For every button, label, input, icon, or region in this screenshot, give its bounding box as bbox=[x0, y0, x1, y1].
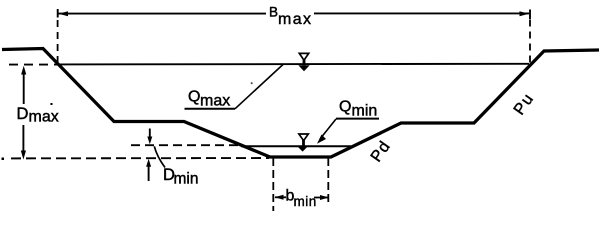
stray scan dot near Q_max leader bbox=[251, 82, 253, 84]
water level symbol (max): solid triangle below line bbox=[298, 65, 309, 71]
svg-text:B: B bbox=[269, 5, 278, 20]
dot at start of bed reference line bbox=[2, 158, 5, 161]
svg-text:max: max bbox=[200, 93, 230, 110]
stray scan dot near D_max label bbox=[51, 103, 53, 105]
max water surface line (solid) bbox=[57, 63, 529, 66]
svg-text:max: max bbox=[29, 109, 59, 126]
channel outline (ground + banks + berms + bed) bbox=[2, 49, 599, 158]
dimension D_min : top arrow (outside, points down to min water line) bbox=[149, 129, 151, 139]
water level symbol (min): stem bbox=[302, 140, 305, 146]
min water surface line (solid) bbox=[241, 145, 351, 147]
dimension D_max : top arrowhead (points up to max water line) bbox=[21, 66, 26, 75]
Q_max leader line to max water surface bbox=[235, 65, 283, 109]
dimension b_min : left extension line (dashed) bbox=[272, 158, 274, 211]
dimension D_min : bottom arrow (outside, points up to bed line) bbox=[148, 165, 150, 181]
water level symbol (max): stem bbox=[303, 59, 306, 65]
dimension B_max : left tick bbox=[57, 9, 59, 18]
dimension B_max : right tick bbox=[529, 10, 531, 20]
svg-text:min: min bbox=[174, 171, 199, 188]
D_min leader curve bbox=[154, 146, 165, 167]
dimension B_max : right arrowhead bbox=[520, 11, 530, 16]
svg-text:min: min bbox=[352, 103, 378, 120]
dimension D_max : shaft upper part bbox=[23, 73, 25, 104]
svg-text:Q: Q bbox=[339, 99, 351, 116]
dimension D_max : bottom arrowhead (points down to bed line) bbox=[21, 151, 26, 160]
dimension b_min : right extension line (dashed) bbox=[327, 158, 329, 203]
dimension B_max : right extension line (dashed) bbox=[529, 20, 531, 64]
Q_max underline bbox=[185, 108, 236, 110]
dimension B_max : left extension line (dashed) bbox=[57, 20, 59, 64]
Q_min leader line bbox=[320, 119, 336, 139]
Q_min underline bbox=[336, 118, 379, 120]
min water surface extension (dashed, left) bbox=[131, 144, 241, 146]
dimension b_min : right arrow bbox=[320, 195, 329, 200]
svg-text:D: D bbox=[17, 105, 29, 123]
water level symbol (min): solid triangle below line bbox=[297, 146, 308, 152]
dimension B_max : line bbox=[58, 13, 266, 15]
channel bed extension (dashed reference line at bottom) bbox=[11, 157, 269, 159]
dimension B_max : left arrowhead bbox=[59, 11, 69, 16]
svg-text:min: min bbox=[294, 194, 317, 209]
water level symbol (min): open triangle bbox=[299, 134, 308, 141]
water level symbol (max): open triangle bbox=[299, 53, 308, 60]
svg-text:max: max bbox=[278, 11, 312, 28]
max water surface extension (dashed, left) bbox=[9, 64, 57, 66]
dimension b_min : left arrow bbox=[275, 195, 284, 200]
dimension D_max : shaft lower part bbox=[22, 125, 24, 152]
svg-text:Q: Q bbox=[188, 89, 200, 106]
Q_min leader arrowhead bbox=[317, 135, 326, 144]
